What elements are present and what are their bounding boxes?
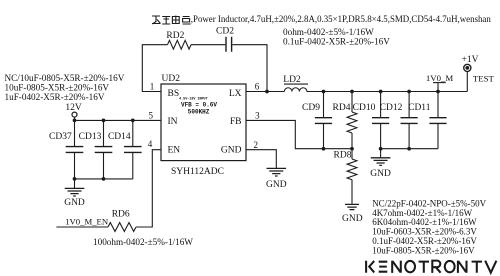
svg-text:LX: LX [229,89,242,99]
ground G4 [342,204,363,224]
svg-text:100ohm-0402-±5%-1/16W: 100ohm-0402-±5%-1/16W [93,237,193,247]
wire: RD2 to CD2 [191,44,225,46]
label: output value list [372,198,486,255]
ground G1 [64,179,85,208]
svg-text:CD9: CD9 [302,103,320,113]
wire: BS loop left [142,45,167,92]
node 1V0_M [426,73,454,91]
wire: LX rail [246,91,467,93]
junction [379,147,383,151]
svg-text:RD4: RD4 [333,103,351,113]
resistor RD4 [333,92,357,149]
wire: input cap bottom rail [75,178,133,180]
junction [407,90,411,94]
svg-text:3: 3 [255,111,260,121]
resistor RD8 [334,149,357,204]
svg-text:4: 4 [148,139,153,149]
junction [379,90,383,94]
svg-text:0.1uF-0402-X5R-±20%-16V: 0.1uF-0402-X5R-±20%-16V [283,37,390,47]
svg-text:UD2: UD2 [162,74,181,84]
capacitor CD2 [216,26,234,51]
wire: 12V to IN rail [74,117,76,120]
svg-text:2: 2 [254,140,259,150]
svg-text:GND: GND [64,198,85,208]
capacitor CD12 [380,92,418,149]
svg-text:IN: IN [168,117,178,127]
junction [350,90,354,94]
capacitor CD37 [49,120,83,178]
junction [322,90,326,94]
svg-text:10uF-0805-X5R-±20%-16V: 10uF-0805-X5R-±20%-16V [372,245,475,255]
svg-text:CD11: CD11 [408,103,431,113]
svg-text:5: 5 [148,111,153,121]
svg-text:CD13: CD13 [79,132,102,142]
svg-text:FB: FB [230,117,242,127]
junction [73,119,77,123]
svg-text:1: 1 [150,82,155,92]
svg-text:,Power Inductor,4.7uH,±20%,2.8: ,Power Inductor,4.7uH,±20%,2.8A,0.35×1P,… [191,14,492,24]
capacitor CD14 [108,120,142,178]
svg-text:CD14: CD14 [108,132,131,142]
svg-text:RD8: RD8 [334,150,352,160]
op-amp U1: chip UD2 SYH112ADC [161,74,246,177]
junction [102,177,106,181]
junction [436,90,440,94]
svg-text:CD12: CD12 [380,103,403,113]
junction [73,177,77,181]
svg-text:CD10: CD10 [353,103,376,113]
wire: FB pin path [246,120,352,148]
capacitor CD11 [408,92,446,149]
junction [131,119,135,123]
svg-text:GND: GND [342,214,363,224]
resistor RD6 [108,209,136,231]
note: KENOTRONTV watermark [366,261,496,273]
wire: CD2 to LX node [232,45,267,92]
wire: IN rail [75,119,162,121]
svg-text:TEST: TEST [473,74,495,84]
svg-text:1V0_M_EN: 1V0_M_EN [65,216,109,226]
capacitor CD13 [79,120,113,178]
junction [407,147,411,151]
junction [265,90,269,94]
wire: GND pin path [246,150,276,169]
svg-text:GND: GND [266,180,287,190]
junction [102,119,106,123]
resistor RD2 [166,31,191,49]
svg-text:CD2: CD2 [216,26,234,36]
svg-text:0ohm-0402-±5%-1/16W: 0ohm-0402-±5%-1/16W [283,27,374,37]
wire: +1V drop [466,71,468,91]
node +1V terminal [462,55,479,72]
label: CD37 CD13 CD14 values [5,73,125,102]
wire: EN input [56,226,108,228]
svg-text:BS: BS [168,89,180,99]
ground G2 [266,168,287,189]
svg-text:1uF-0402-X5R-±20%-16V: 1uF-0402-X5R-±20%-16V [5,92,105,102]
svg-text:6: 6 [255,82,260,92]
wire: output cap bottom rail [381,148,438,150]
svg-text:500KHZ: 500KHZ [188,108,210,115]
svg-text:RD6: RD6 [112,209,130,219]
svg-text:1V0_M: 1V0_M [426,73,454,83]
svg-text:SYH112ADC: SYH112ADC [171,167,224,177]
svg-text:GND: GND [221,145,242,155]
svg-text:12V: 12V [65,103,82,113]
capacitor CD9 [302,92,332,149]
junction [322,147,326,151]
svg-text:CD37: CD37 [49,132,72,142]
svg-text:LD2: LD2 [283,75,301,85]
ground G3 [370,149,391,179]
junction [350,147,354,151]
capacitor CD10 [353,92,390,149]
svg-text:+1V: +1V [462,55,479,65]
svg-text:EN: EN [168,145,181,155]
wire: RD6 to EN pin [136,150,161,227]
svg-text:RD2: RD2 [166,31,184,41]
svg-text:GND: GND [370,169,391,179]
node 12V terminal [65,103,82,117]
note: 功率电感 (drawn glyphs) [152,16,191,25]
inductor LD2 [283,75,308,92]
